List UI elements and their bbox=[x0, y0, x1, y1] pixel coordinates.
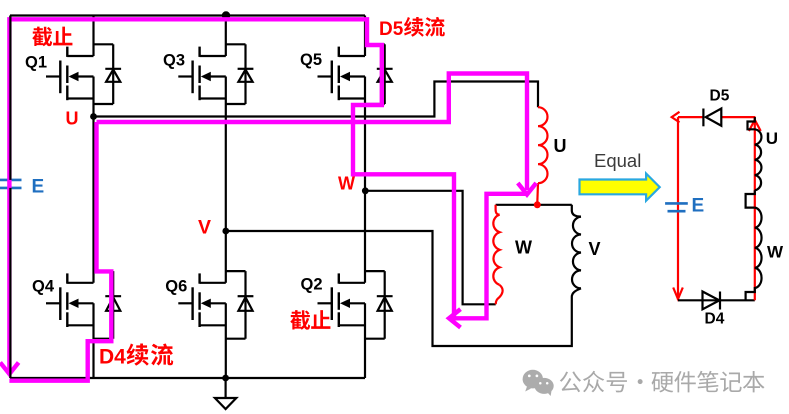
eq wire left (red) bbox=[677, 117, 679, 300]
wire Q5 drain riser bbox=[364, 16, 366, 57]
wire winding V top lead bbox=[572, 205, 581, 217]
svg-text:Equal: Equal bbox=[594, 150, 641, 171]
eq label D5 bbox=[710, 88, 730, 105]
transistor Q4 bbox=[46, 273, 94, 327]
svg-text:V: V bbox=[589, 239, 601, 259]
svg-text:D4: D4 bbox=[705, 311, 725, 328]
current path: W phase wire up to node W rail and through D5 to top rail bbox=[9, 19, 454, 373]
label Equal bbox=[594, 150, 641, 171]
ground bbox=[215, 378, 236, 409]
eq wire bottom (black) bbox=[678, 299, 755, 301]
eq winding mid connector bbox=[746, 190, 755, 207]
node star point (red) bbox=[534, 201, 541, 208]
eq winding W (black) bbox=[746, 208, 762, 301]
eq arrow right-top (red, pointing up) bbox=[749, 120, 761, 131]
wire phase W (node W to winding W) bbox=[365, 191, 495, 304]
node W bbox=[362, 187, 369, 194]
current path: bottom rail to D4 up to node U bbox=[9, 122, 111, 381]
wire left DC bus (black over current path, lower) bbox=[9, 188, 11, 378]
label U (node) bbox=[66, 109, 79, 129]
eq wire top (red) bbox=[678, 116, 755, 118]
svg-text:Q3: Q3 bbox=[163, 52, 185, 70]
label W (node) bbox=[338, 174, 355, 194]
current path arrow into star point bbox=[518, 183, 536, 195]
svg-text:V: V bbox=[198, 217, 211, 239]
svg-text:Q1: Q1 bbox=[25, 54, 47, 72]
label 截止 (Q1 off) bbox=[32, 27, 72, 47]
wire star point line bbox=[496, 204, 572, 206]
svg-text:W: W bbox=[515, 238, 532, 258]
inductor winding W (red) bbox=[493, 215, 499, 285]
body diode of Q4 bbox=[94, 271, 122, 339]
current path arrow down left bus bbox=[0, 363, 18, 375]
transistor Q6 bbox=[178, 273, 226, 327]
transistor Q3 bbox=[178, 47, 226, 101]
wire left DC bus (upper) bbox=[9, 16, 11, 180]
svg-text:Q2: Q2 bbox=[301, 276, 323, 294]
body diode of Q3 bbox=[226, 44, 254, 104]
eq label D4 bbox=[705, 311, 725, 328]
label Q1 bbox=[25, 54, 47, 72]
wire Q5 source to node W bbox=[364, 77, 366, 191]
watermark wechat icon bbox=[523, 370, 554, 396]
svg-text:Q4: Q4 bbox=[32, 278, 55, 296]
wire Q3 source to node V bbox=[225, 77, 227, 232]
label D5续流 (D5 freewheeling) bbox=[379, 17, 445, 40]
wire Q2 source to bottom rail bbox=[364, 303, 366, 378]
node top rail junction bbox=[222, 11, 230, 19]
eq arrow left-top (red, pointing left) bbox=[672, 112, 680, 123]
svg-text:U: U bbox=[554, 136, 567, 156]
wire Q1 source to node U bbox=[92, 77, 94, 117]
wire phase V (node V to winding V) bbox=[226, 231, 572, 346]
eq label E bbox=[692, 196, 705, 217]
svg-text:Q5: Q5 bbox=[300, 51, 322, 69]
eq wire right vertical (red flow over windings) bbox=[754, 117, 756, 300]
transistor Q1 bbox=[46, 47, 94, 101]
wire left DC bus (black over current path, upper) bbox=[9, 16, 11, 180]
wire winding W bottom lead (red) bbox=[496, 285, 503, 304]
current path arrow toward W phase wire bbox=[449, 309, 461, 327]
label Q5 bbox=[300, 51, 322, 69]
wire phase U (node U to winding U) bbox=[94, 82, 539, 117]
wire top DC+ rail bbox=[10, 14, 365, 16]
label U (winding) bbox=[554, 136, 567, 156]
body diode of Q1 bbox=[94, 44, 122, 104]
wire bottom DC- rail bbox=[10, 377, 365, 379]
body diode of Q2 bbox=[365, 271, 393, 339]
transistor Q2 bbox=[318, 273, 366, 327]
label V (node) bbox=[198, 217, 211, 239]
wire Q1 drain riser bbox=[92, 16, 94, 57]
capacitor E bbox=[0, 180, 22, 188]
svg-text:W: W bbox=[767, 243, 784, 262]
eq winding U (black) bbox=[748, 117, 762, 190]
body diode of Q5 bbox=[365, 44, 393, 104]
svg-text:E: E bbox=[32, 177, 45, 198]
eq capacitor E bbox=[665, 203, 688, 211]
svg-text:E: E bbox=[692, 196, 705, 217]
transistor Q5 bbox=[318, 47, 366, 101]
svg-text:Q6: Q6 bbox=[165, 278, 187, 296]
inductor winding U (red) bbox=[538, 107, 548, 183]
svg-text:D4: D4 bbox=[99, 346, 126, 369]
wire Q6 drain riser (node V down) bbox=[225, 231, 227, 283]
wire Q2 drain riser (node W down) bbox=[364, 191, 366, 283]
wire Q3 drain riser bbox=[225, 16, 227, 57]
label Q4 bbox=[32, 278, 55, 296]
wire Q4 source to bottom rail bbox=[92, 303, 94, 378]
svg-text:D5: D5 bbox=[379, 19, 404, 40]
current path: node U to winding U (via U rail) bbox=[97, 74, 528, 191]
label W (winding) bbox=[515, 238, 532, 258]
node bottom rail junction bbox=[222, 375, 229, 382]
label 截止 (Q2 off) bbox=[290, 310, 330, 330]
label Q3 bbox=[163, 52, 185, 70]
wire Q6 source to bottom rail bbox=[225, 303, 227, 378]
svg-text:D5: D5 bbox=[710, 88, 730, 105]
eq diode D5 bbox=[703, 109, 721, 127]
wire winding W top lead (red) bbox=[496, 205, 500, 215]
inductor winding V bbox=[572, 217, 581, 289]
body diode of Q6 bbox=[226, 271, 254, 339]
eq arrow left-bottom (red, pointing down) bbox=[673, 288, 683, 300]
label Q2 bbox=[301, 276, 323, 294]
wire Q4 drain riser (node U down) bbox=[92, 117, 94, 283]
current path: star through winding W down and left bbox=[452, 194, 527, 318]
svg-text:U: U bbox=[766, 129, 778, 148]
watermark text 公众号·硬件笔记本 bbox=[560, 371, 765, 393]
eq label W bbox=[767, 243, 784, 262]
node U bbox=[90, 113, 97, 120]
label D4续流 (D4 freewheeling) bbox=[99, 344, 173, 369]
wire left DC bus (lower) bbox=[9, 188, 11, 378]
label Q6 bbox=[165, 278, 187, 296]
label E (DC source) bbox=[32, 177, 45, 198]
yellow equal arrow bbox=[580, 174, 660, 201]
eq label U bbox=[766, 129, 778, 148]
wire winding V bottom lead bbox=[572, 288, 581, 297]
svg-text:U: U bbox=[66, 109, 79, 129]
eq diode D4 bbox=[703, 292, 721, 310]
node V bbox=[222, 228, 229, 235]
label V (winding) bbox=[589, 239, 601, 259]
wire winding U bottom lead (red) bbox=[536, 183, 539, 203]
